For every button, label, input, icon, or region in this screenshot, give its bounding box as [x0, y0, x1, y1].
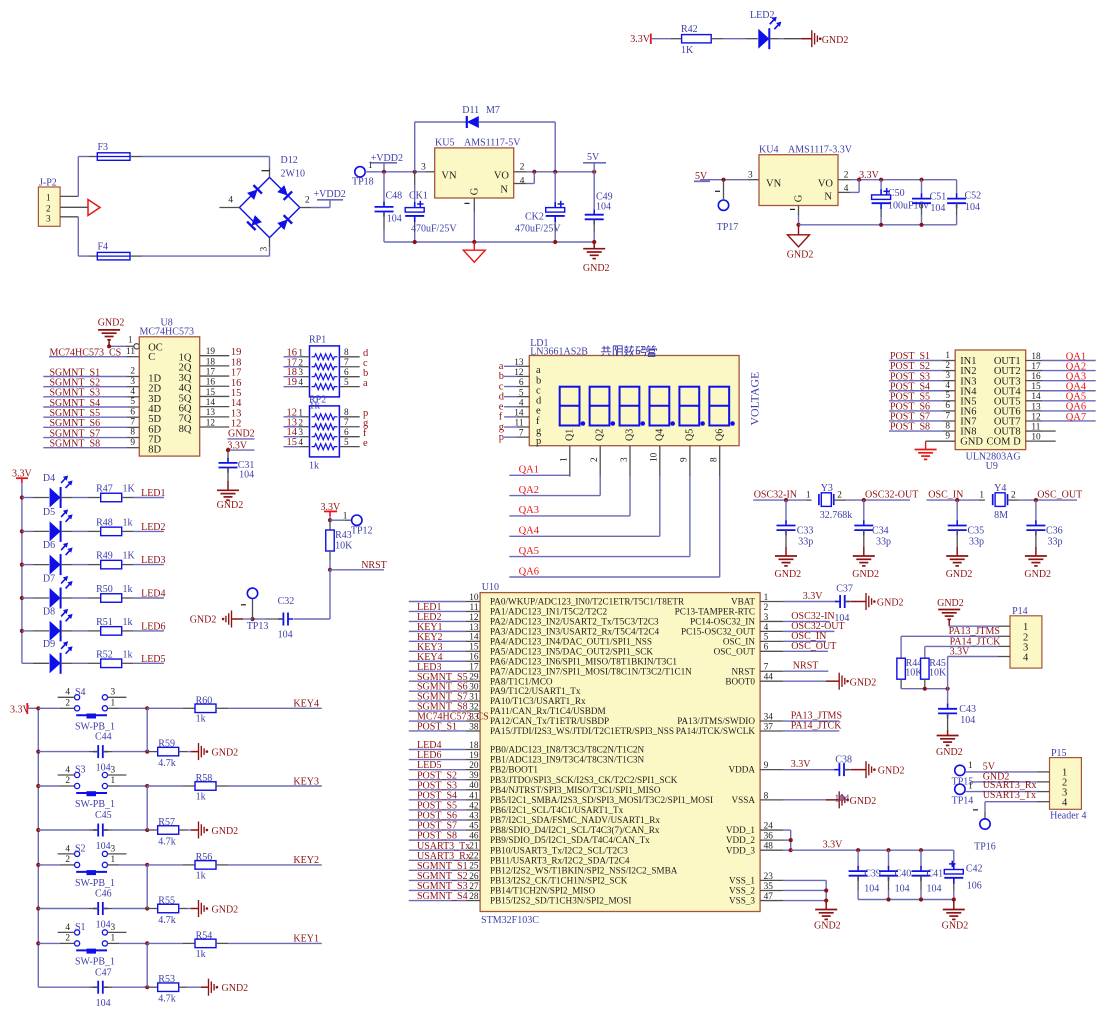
svg-text:1k: 1k — [196, 949, 206, 960]
capacitor C41 104 — [912, 850, 944, 899]
svg-text:PC14-OSC32_IN: PC14-OSC32_IN — [690, 617, 755, 627]
display segments — [560, 387, 735, 441]
capacitor CK2 470uF/25V — [515, 172, 565, 242]
display left pins a-p — [499, 358, 542, 447]
U10 left pins group PB — [409, 740, 480, 902]
resistor R60 1k — [145, 695, 216, 724]
svg-text:31: 31 — [469, 693, 479, 703]
svg-text:SGMNT_S4: SGMNT_S4 — [417, 891, 468, 902]
svg-text:R60: R60 — [196, 695, 213, 706]
svg-text:PA5/ADC123_IN5/DAC_OUT2/SPI1_S: PA5/ADC123_IN5/DAC_OUT2/SPI1_SCK — [490, 646, 653, 656]
svg-text:U9: U9 — [986, 461, 998, 472]
wire 5V to KU4 — [700, 178, 759, 182]
resistor R56 1k — [145, 852, 216, 881]
svg-text:4: 4 — [130, 387, 135, 397]
svg-text:F4: F4 — [98, 242, 109, 253]
svg-text:3.3V: 3.3V — [791, 759, 812, 770]
wire ground rail KU5 — [384, 240, 596, 244]
svg-text:PA1/ADC123_IN1/T5C2/T2C2: PA1/ADC123_IN1/T5C2/T2C2 — [490, 607, 607, 617]
svg-text:104: 104 — [96, 841, 111, 852]
svg-text:26: 26 — [469, 872, 479, 882]
svg-text:1k: 1k — [123, 649, 133, 660]
wire F4 to bridge bottom — [130, 237, 270, 256]
svg-text:R50: R50 — [96, 584, 113, 595]
svg-text:1: 1 — [979, 490, 984, 500]
wire S4 junction to cap — [146, 708, 148, 751]
U9 output pins QA1-QA7 — [1026, 351, 1096, 442]
resistor R42 1K — [681, 24, 711, 56]
test point TP17 — [715, 180, 738, 233]
chinese label 共阴数码管 — [601, 345, 657, 356]
svg-text:GND2: GND2 — [787, 250, 814, 261]
net label LED4 — [122, 589, 166, 600]
resistor R53 4.7k — [147, 974, 201, 1005]
resistor R59 4.7k — [147, 738, 191, 769]
svg-text:12: 12 — [206, 418, 216, 428]
svg-text:LED2: LED2 — [750, 10, 774, 21]
wire bridge pin2 to +VDD2 — [300, 200, 330, 208]
wire S2 junction to cap — [146, 865, 148, 909]
svg-text:PC13-TAMPER-RTC: PC13-TAMPER-RTC — [675, 607, 755, 617]
svg-text:9: 9 — [130, 438, 135, 448]
svg-text:106: 106 — [967, 881, 982, 892]
svg-text:1: 1 — [128, 336, 133, 346]
svg-text:2: 2 — [46, 205, 51, 215]
svg-text:104: 104 — [96, 998, 111, 1009]
test point TP14 — [952, 784, 974, 807]
svg-text:1: 1 — [806, 490, 811, 500]
svg-text:104: 104 — [960, 715, 975, 726]
power port 3.3V (LED2 branch) — [630, 34, 651, 46]
svg-text:2: 2 — [65, 776, 70, 786]
svg-text:16: 16 — [206, 378, 216, 388]
svg-text:TP18: TP18 — [352, 177, 374, 188]
wire — [711, 38, 758, 40]
svg-text:PA7/ADC123_IN7/SPI1_MOSI/T8C1N: PA7/ADC123_IN7/SPI1_MOSI/T8C1N/T3C2/T1C1… — [490, 666, 692, 676]
svg-text:39: 39 — [469, 771, 479, 781]
svg-text:470uF/25V: 470uF/25V — [411, 224, 457, 235]
svg-text:3.3V: 3.3V — [950, 646, 971, 657]
fuse F4 — [97, 242, 130, 260]
svg-text:PB11/USART3_Rx/I2C2_SDA/T2C4: PB11/USART3_Rx/I2C2_SDA/T2C4 — [490, 855, 630, 865]
diode D11 M7 (bypass) — [415, 105, 556, 172]
wire / net NRST — [328, 551, 387, 572]
svg-text:C38: C38 — [835, 754, 852, 765]
net OSC32-OUT — [865, 490, 918, 501]
svg-text:6: 6 — [344, 428, 349, 438]
svg-text:1K: 1K — [123, 551, 136, 562]
svg-text:Q1: Q1 — [565, 429, 576, 441]
svg-text:9: 9 — [945, 432, 950, 442]
svg-text:R51: R51 — [96, 617, 113, 628]
resistor R44 10K — [897, 636, 923, 688]
svg-text:38: 38 — [469, 722, 479, 732]
svg-text:1: 1 — [111, 699, 116, 709]
svg-text:TP16: TP16 — [974, 841, 996, 852]
svg-text:D5: D5 — [43, 507, 55, 518]
svg-text:KEY3: KEY3 — [293, 776, 319, 787]
svg-text:2: 2 — [298, 418, 303, 428]
svg-text:4: 4 — [65, 844, 70, 854]
svg-text:3: 3 — [945, 371, 950, 381]
net OSC_IN (U10) — [760, 631, 826, 642]
ground GND2 (C31) — [217, 481, 244, 511]
svg-text:OSC32-OUT: OSC32-OUT — [865, 490, 918, 501]
svg-text:3: 3 — [298, 368, 303, 378]
svg-text:KU5: KU5 — [435, 138, 454, 149]
svg-text:e: e — [363, 438, 368, 449]
svg-text:2: 2 — [1011, 490, 1016, 500]
svg-text:1: 1 — [111, 855, 116, 865]
svg-text:QA3: QA3 — [519, 505, 539, 516]
switch S3 SW-PB_1 — [38, 765, 147, 810]
svg-text:OSC_OUT: OSC_OUT — [714, 646, 756, 656]
svg-text:30: 30 — [469, 683, 479, 693]
svg-text:R55: R55 — [158, 895, 175, 906]
svg-text:3: 3 — [111, 688, 116, 698]
svg-text:2: 2 — [65, 699, 70, 709]
svg-text:G: G — [794, 194, 805, 202]
svg-text:LED4: LED4 — [141, 589, 165, 600]
LED D4 — [22, 473, 73, 508]
svg-text:LED6: LED6 — [141, 621, 165, 632]
svg-text:GND2: GND2 — [850, 677, 877, 688]
svg-text:2: 2 — [520, 162, 525, 172]
svg-text:4: 4 — [1023, 653, 1029, 664]
svg-text:GND2: GND2 — [1024, 569, 1051, 580]
connector P14 — [1010, 606, 1042, 668]
svg-text:5: 5 — [344, 378, 349, 388]
svg-text:2: 2 — [65, 934, 70, 944]
net OSC32-IN (U10) — [760, 611, 835, 622]
wire / net USART3_Rx (P15 pin3) — [965, 780, 1049, 792]
ground GND2 (KU5 output rail) — [583, 242, 610, 274]
wire decoupling ground rail — [858, 897, 956, 901]
svg-text:GND2: GND2 — [98, 317, 125, 328]
svg-text:VSS_2: VSS_2 — [729, 886, 755, 896]
svg-text:18: 18 — [206, 357, 216, 367]
svg-text:1k: 1k — [196, 870, 206, 881]
svg-text:1k: 1k — [123, 518, 133, 529]
svg-text:3.3V: 3.3V — [630, 34, 651, 45]
pin stubs J-P2 — [60, 196, 88, 216]
resistor network RP1 1k — [284, 335, 370, 397]
LED D8 — [22, 606, 73, 641]
svg-text:2: 2 — [945, 361, 950, 371]
svg-text:1k: 1k — [123, 584, 133, 595]
svg-text:STM32F103C: STM32F103C — [481, 915, 539, 926]
svg-text:5: 5 — [945, 391, 950, 401]
svg-text:27: 27 — [469, 882, 479, 892]
svg-text:11: 11 — [470, 603, 479, 613]
pin BOOT0 to ground GND2 — [760, 673, 876, 690]
svg-text:104: 104 — [596, 201, 611, 212]
svg-text:3.3V: 3.3V — [859, 170, 880, 181]
capacitor C50 100uF16v — [872, 180, 929, 225]
svg-text:4: 4 — [228, 196, 233, 206]
IC U8 MC74HC573 — [139, 317, 199, 456]
svg-text:PB15/I2S2_SD/T1CH3N/SPI2_MOSI: PB15/I2S2_SD/T1CH3N/SPI2_MOSI — [490, 896, 631, 906]
svg-text:18: 18 — [469, 741, 479, 751]
svg-text:QA5: QA5 — [519, 546, 539, 557]
svg-text:19: 19 — [287, 377, 298, 388]
svg-text:46: 46 — [469, 832, 479, 842]
svg-text:12: 12 — [1031, 412, 1041, 422]
capacitor C47 104 — [38, 967, 149, 1009]
svg-text:2: 2 — [844, 170, 849, 180]
fuse F3 — [97, 142, 130, 160]
wire OC — [107, 336, 139, 349]
LED D9 — [22, 639, 73, 674]
svg-text:2W10: 2W10 — [281, 169, 305, 180]
svg-text:1K: 1K — [681, 45, 694, 56]
svg-text:BOOT0: BOOT0 — [725, 676, 755, 686]
svg-text:17: 17 — [469, 663, 479, 673]
net label MC74HC573_CS — [49, 347, 139, 359]
svg-text:12: 12 — [469, 613, 479, 623]
svg-text:KEY2: KEY2 — [293, 855, 319, 866]
capacitor C51 104 — [912, 180, 946, 225]
svg-text:VO: VO — [494, 171, 510, 182]
svg-text:14: 14 — [469, 633, 479, 643]
pin KU4 N (pin4) — [838, 180, 859, 193]
capacitor C48 104 — [375, 172, 403, 242]
switch S1 SW-PB_1 — [38, 922, 147, 967]
LED LED2 — [750, 10, 781, 49]
svg-text:C32: C32 — [278, 596, 295, 607]
svg-text:C40: C40 — [895, 869, 912, 880]
svg-text:PA10/T1C3/USART1_Rx: PA10/T1C3/USART1_Rx — [490, 696, 586, 706]
svg-text:SW-PB_1: SW-PB_1 — [75, 799, 115, 810]
pin KU4 G — [790, 206, 801, 227]
ground GND2 (R59) — [191, 743, 238, 760]
wire / net 3.3V (P14 pin4) — [948, 646, 1010, 657]
svg-text:TP14: TP14 — [952, 796, 974, 807]
svg-text:PB7/I2C1_SDA/FSMC_NADV/USART1_: PB7/I2C1_SDA/FSMC_NADV/USART1_Rx — [490, 815, 660, 825]
capacitor C40 104 — [879, 850, 911, 899]
svg-text:15: 15 — [206, 388, 216, 398]
svg-text:GND2: GND2 — [190, 615, 217, 626]
ground GND2 (C33) — [775, 547, 802, 580]
svg-text:13: 13 — [206, 408, 216, 418]
node bus S2 — [36, 863, 40, 911]
resistor network RP2 1k — [284, 395, 370, 472]
net OSC_IN — [927, 490, 985, 503]
svg-text:2: 2 — [590, 457, 600, 462]
svg-text:3: 3 — [130, 377, 135, 387]
resistor R52 1k — [61, 649, 133, 667]
wires VSS_1-3 to ground — [760, 880, 828, 902]
svg-text:GND2: GND2 — [942, 921, 969, 932]
svg-text:PA2/ADC123_IN2/USART2_Tx/T5C3/: PA2/ADC123_IN2/USART2_Tx/T5C3/T2C3 — [490, 617, 659, 627]
svg-text:1: 1 — [560, 457, 570, 462]
svg-text:PA8/T1C1/MCO: PA8/T1C1/MCO — [490, 676, 553, 686]
svg-text:4: 4 — [298, 378, 303, 388]
svg-text:VDDA: VDDA — [728, 765, 755, 775]
svg-text:4.7k: 4.7k — [158, 837, 176, 848]
svg-text:104: 104 — [96, 920, 111, 931]
svg-text:1: 1 — [111, 934, 116, 944]
svg-text:QA1: QA1 — [519, 465, 539, 476]
svg-text:40: 40 — [469, 781, 479, 791]
regulator KU5 AMS1117-5V — [421, 138, 525, 199]
svg-text:11: 11 — [126, 347, 135, 357]
svg-text:PB14/T1CH2N/SPI2_MISO: PB14/T1CH2N/SPI2_MISO — [490, 886, 596, 896]
capacitor C39 104 — [849, 850, 881, 899]
ground GND2 (C43) — [936, 730, 963, 758]
net label KEY1 — [216, 934, 322, 945]
svg-text:QA2: QA2 — [519, 485, 539, 496]
node LED bus row 1 — [20, 495, 24, 499]
svg-text:3: 3 — [111, 765, 116, 775]
svg-text:33p: 33p — [876, 536, 891, 547]
net label KEY3 — [216, 776, 322, 787]
svg-text:D7: D7 — [43, 574, 55, 585]
resistor R55 4.7k — [147, 895, 191, 926]
svg-text:OSC_OUT: OSC_OUT — [791, 641, 836, 652]
svg-text:104: 104 — [965, 202, 980, 213]
svg-text:N: N — [824, 192, 832, 203]
ground GND2 (LED2) — [802, 30, 849, 47]
svg-text:1K: 1K — [123, 484, 136, 495]
svg-text:1k: 1k — [196, 791, 206, 802]
U8 output pins 1Q-8Q — [200, 347, 242, 429]
svg-text:GND2: GND2 — [814, 921, 841, 932]
svg-text:470uF/25V: 470uF/25V — [515, 224, 561, 235]
svg-text:RP2: RP2 — [309, 395, 326, 406]
svg-text:1: 1 — [111, 776, 116, 786]
U10 left pins group PA — [409, 593, 489, 733]
svg-text:D9: D9 — [43, 639, 55, 650]
svg-text:C36: C36 — [1046, 526, 1063, 537]
node LED bus row 2 — [20, 529, 24, 533]
net label LED6 — [122, 621, 166, 632]
pin KU5 G — [465, 198, 475, 242]
svg-text:8: 8 — [945, 421, 950, 431]
svg-text:GND2: GND2 — [850, 796, 877, 807]
svg-text:USART3_Tx: USART3_Tx — [983, 790, 1036, 801]
svg-text:33p: 33p — [798, 536, 813, 547]
svg-text:41: 41 — [469, 791, 479, 801]
wire (top branch to F3) — [78, 157, 97, 197]
net OSC32-OUT (U10) — [760, 621, 845, 632]
svg-text:43: 43 — [469, 811, 479, 821]
svg-text:PA9/T1C2/USART1_Tx: PA9/T1C2/USART1_Tx — [490, 686, 581, 696]
pin VSSA to ground GND2 — [760, 791, 876, 808]
wire / net PA14_JTCK (P14 pin3) — [925, 636, 1010, 647]
ground GND2 (R57) — [191, 822, 238, 839]
capacitor C32 104 — [253, 596, 295, 640]
svg-text:Q3: Q3 — [625, 429, 636, 441]
svg-text:PA4/ADC123_IN4/DAC_OUT1/SPI1_N: PA4/ADC123_IN4/DAC_OUT1/SPI1_NSS — [490, 636, 652, 646]
svg-text:QA7: QA7 — [1066, 412, 1086, 423]
svg-text:104: 104 — [927, 884, 942, 895]
svg-text:C50: C50 — [888, 188, 905, 199]
ground GND2 (VSS) — [814, 901, 841, 932]
net label KEY2 — [216, 855, 322, 866]
svg-text:PB4/NJTRST/SPI3_MISO/T3C1/SPI1: PB4/NJTRST/SPI3_MISO/T3C1/SPI1_MISO — [490, 785, 661, 795]
svg-text:1: 1 — [968, 782, 973, 792]
svg-text:19: 19 — [469, 751, 479, 761]
svg-text:OSC_IN: OSC_IN — [723, 636, 756, 646]
svg-text:PA12/CAN_Tx/T1ETR/USBDP: PA12/CAN_Tx/T1ETR/USBDP — [490, 716, 609, 726]
svg-text:PA14_JTCK: PA14_JTCK — [791, 720, 843, 731]
svg-text:LED1: LED1 — [141, 488, 165, 499]
svg-text:1k: 1k — [196, 714, 206, 725]
pin KU5 output — [514, 170, 597, 174]
svg-text:8D: 8D — [148, 445, 161, 456]
svg-text:PB1/ADC123_IN9/T3C4/T8C3N/T1C3: PB1/ADC123_IN9/T3C4/T8C3N/T1C3N — [490, 755, 645, 765]
svg-text:Y3: Y3 — [821, 483, 833, 494]
svg-text:15: 15 — [1031, 382, 1041, 392]
svg-text:6: 6 — [344, 368, 349, 378]
svg-text:PB9/SDIO_D5/I2C1_SDA/T4C4/CAN_: PB9/SDIO_D5/I2C1_SDA/T4C4/CAN_Tx — [490, 835, 650, 845]
svg-text:16: 16 — [469, 653, 479, 663]
svg-text:LED3: LED3 — [141, 555, 165, 566]
svg-text:1k: 1k — [123, 617, 133, 628]
svg-text:RP1: RP1 — [309, 335, 326, 346]
svg-text:17: 17 — [206, 367, 216, 377]
svg-text:17: 17 — [1031, 362, 1041, 372]
svg-text:14: 14 — [1031, 392, 1041, 402]
svg-text:104: 104 — [387, 214, 402, 225]
wire key bus — [37, 708, 39, 987]
svg-text:+VDD2: +VDD2 — [314, 189, 346, 200]
node bus S4 — [36, 706, 40, 754]
svg-text:AMS1117-5V: AMS1117-5V — [464, 138, 521, 149]
svg-text:D12: D12 — [281, 155, 298, 166]
svg-text:29: 29 — [469, 673, 479, 683]
net label LED3 — [122, 555, 166, 566]
svg-text:VDD_3: VDD_3 — [726, 845, 755, 855]
resistor R50 1k — [61, 584, 133, 602]
svg-text:16: 16 — [1031, 372, 1041, 382]
svg-text:2: 2 — [764, 603, 769, 613]
svg-text:S3: S3 — [75, 765, 86, 776]
svg-text:R54: R54 — [196, 930, 213, 941]
svg-text:C52: C52 — [965, 191, 982, 202]
node bus S3 — [36, 784, 40, 832]
svg-text:PA0/WKUP/ADC123_IN0/T2C1ETR/T5: PA0/WKUP/ADC123_IN0/T2C1ETR/T5C1/T8ETR — [490, 597, 685, 607]
svg-text:25: 25 — [469, 862, 479, 872]
wire / net 5V (P15 pin1) — [965, 761, 1049, 772]
power port 5V (KU5 output) — [583, 152, 606, 172]
capacitor C36 33p — [1026, 500, 1062, 547]
svg-text:7: 7 — [945, 411, 950, 421]
svg-text:C39: C39 — [864, 869, 881, 880]
svg-text:R57: R57 — [158, 817, 175, 828]
svg-text:PC15-OSC32_OUT: PC15-OSC32_OUT — [681, 626, 755, 636]
svg-text:GND2: GND2 — [936, 747, 963, 758]
svg-text:R59: R59 — [158, 738, 175, 749]
svg-text:CK1: CK1 — [409, 191, 428, 202]
svg-text:104: 104 — [239, 469, 254, 480]
node bus S1 — [36, 941, 40, 945]
svg-text:3: 3 — [421, 162, 426, 172]
svg-text:GND2: GND2 — [212, 747, 239, 758]
svg-text:Q6: Q6 — [714, 429, 725, 441]
capacitor C44 104 — [38, 732, 149, 774]
net label LED1 — [122, 488, 166, 499]
svg-text:VSS_3: VSS_3 — [729, 896, 755, 906]
svg-text:GND2: GND2 — [212, 904, 239, 915]
svg-text:GND: GND — [960, 437, 983, 448]
svg-text:VN: VN — [441, 171, 457, 182]
svg-text:1: 1 — [343, 512, 348, 522]
svg-text:PB3/JTDO/SPI3_SCK/I2S3_CK/T2C2: PB3/JTDO/SPI3_SCK/I2S3_CK/T2C2/SPI1_SCK — [490, 775, 678, 785]
switch S2 SW-PB_1 — [38, 844, 147, 889]
svg-text:VBAT: VBAT — [731, 597, 755, 607]
